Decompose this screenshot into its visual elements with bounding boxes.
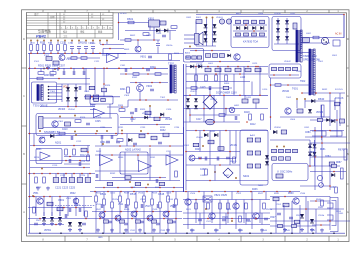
diode VD707 xyxy=(331,173,335,177)
capacitor C604 xyxy=(260,20,265,24)
border tick bottom xyxy=(196,236,198,242)
junction N1 xyxy=(120,211,122,213)
diode VD304 xyxy=(74,97,78,101)
resistor R318 xyxy=(89,86,95,89)
resistor R101 xyxy=(36,45,39,51)
resistor R533 xyxy=(335,187,338,193)
wire C h1 xyxy=(196,45,216,47)
test point TP2 xyxy=(37,40,39,42)
ceramic filter Z102 xyxy=(53,61,59,65)
wire E rail xyxy=(28,67,168,69)
wire R103 xyxy=(50,51,52,54)
junction X 204-130.5 xyxy=(203,130,205,132)
wire E v7 xyxy=(103,68,105,97)
wire I c220 xyxy=(55,174,57,178)
svg-text:R502: R502 xyxy=(70,193,76,195)
capacitor C216 xyxy=(69,159,71,163)
drawing inner border xyxy=(27,13,347,236)
resistor R534 xyxy=(168,220,173,223)
svg-text:N201: N201 xyxy=(36,149,42,151)
svg-text:Z102: Z102 xyxy=(44,55,50,57)
junction G3 xyxy=(237,66,239,68)
diode VD502 xyxy=(58,217,62,221)
wire N col1 xyxy=(103,205,105,233)
junction E143 xyxy=(142,68,144,70)
wire O col9 xyxy=(259,200,261,224)
junction D1 xyxy=(343,14,345,16)
via A4 xyxy=(54,68,56,70)
wire B h1 xyxy=(119,22,153,24)
diode VD531 xyxy=(310,219,314,223)
border tick bottom xyxy=(328,236,330,242)
diode VD606 xyxy=(213,38,217,42)
diode VD430 xyxy=(204,133,208,137)
diode VD640 xyxy=(272,67,277,70)
wire R h166 xyxy=(308,165,340,167)
svg-text:C531: C531 xyxy=(130,230,136,232)
capacitor C431 xyxy=(226,157,230,159)
svg-text:D: D xyxy=(23,38,25,41)
wire T301 pin1 xyxy=(49,86,62,88)
svg-text:R437: R437 xyxy=(224,175,230,177)
transistor V601 xyxy=(234,54,240,60)
resistor R532 xyxy=(321,200,324,206)
junction E131 xyxy=(130,68,132,70)
svg-text:R511: R511 xyxy=(96,193,102,195)
capacitor C312 xyxy=(79,86,81,90)
wire O h3 xyxy=(183,224,270,226)
resistor R613 xyxy=(260,33,265,36)
capacitor C310 xyxy=(85,95,91,99)
svg-text:T601: T601 xyxy=(318,61,324,63)
svg-text:C553b: C553b xyxy=(318,215,325,217)
wire L h4 xyxy=(310,171,346,173)
junction O3 xyxy=(251,199,253,201)
wire N v8 xyxy=(159,192,161,203)
resistor R701 xyxy=(318,118,323,121)
via F1 xyxy=(149,105,151,107)
wire N h2 xyxy=(92,218,182,220)
via H1 xyxy=(296,98,298,100)
wire R v5 xyxy=(314,140,316,166)
svg-text:X901: X901 xyxy=(339,213,345,215)
svg-text:FOCUS: FOCUS xyxy=(335,97,344,100)
wire R102 xyxy=(43,51,45,54)
via K1 xyxy=(202,145,204,147)
wire M h1 xyxy=(28,196,92,198)
svg-text:PB41: PB41 xyxy=(36,34,47,39)
wire R105 xyxy=(64,51,66,54)
wire I c224 xyxy=(87,174,89,178)
wire R h186 xyxy=(300,185,330,187)
svg-text:VD1: VD1 xyxy=(63,86,68,89)
transistor V511 xyxy=(115,215,121,221)
wire G vz0 xyxy=(203,95,205,122)
junction E59 xyxy=(58,68,60,70)
lamp H401 xyxy=(229,107,235,113)
junction gnd 103 xyxy=(102,232,104,234)
capacitor C413 xyxy=(235,116,237,120)
wire J h2 xyxy=(95,145,183,147)
border tick top xyxy=(328,10,330,13)
svg-text:C601: C601 xyxy=(186,17,192,19)
ground M4 xyxy=(68,228,72,232)
ground N1 xyxy=(110,229,114,233)
svg-text:C234: C234 xyxy=(174,127,180,129)
svg-text:AC IN: AC IN xyxy=(335,33,342,36)
transistor V514 xyxy=(163,211,169,217)
resistor R400 xyxy=(195,75,198,81)
svg-text:C546: C546 xyxy=(310,230,316,232)
junction J r5 xyxy=(173,187,175,189)
wire drop TP7 xyxy=(71,42,73,45)
junction M6 xyxy=(33,196,35,198)
svg-text:VD601: VD601 xyxy=(216,17,223,19)
fuse F602 xyxy=(226,19,231,24)
border tick left xyxy=(22,125,27,127)
wire F h4 xyxy=(90,109,96,111)
capacitor C232 xyxy=(116,141,120,143)
junction K5 xyxy=(225,130,227,132)
svg-text:C519: C519 xyxy=(152,209,158,211)
capacitor Cb2 xyxy=(141,204,143,208)
junction gnd 313 xyxy=(312,232,314,234)
junction A rail 100 xyxy=(99,53,101,55)
via C8 xyxy=(189,46,191,48)
svg-text:C311: C311 xyxy=(90,106,96,108)
svg-text:K601: K601 xyxy=(148,17,155,21)
capacitor C220 xyxy=(53,178,59,183)
wire G vx0 xyxy=(195,67,197,96)
svg-text:V303: V303 xyxy=(124,95,130,97)
junction X 160-82.5 xyxy=(159,82,161,84)
wire N v2 xyxy=(111,192,113,203)
svg-text:R231: R231 xyxy=(118,127,124,129)
junction E83 xyxy=(82,68,84,70)
CRT socket bracket outer xyxy=(330,198,338,232)
svg-text:VD684: VD684 xyxy=(316,112,324,114)
wire J h3 xyxy=(95,154,183,156)
wire N col7 xyxy=(151,205,153,233)
wire J h5 xyxy=(112,177,166,179)
capacitor C603 xyxy=(252,20,257,24)
wire drop TP5 xyxy=(57,42,59,45)
wire I h1 xyxy=(28,133,95,135)
svg-text:XP601: XP601 xyxy=(120,13,127,15)
pin T301-2 xyxy=(48,89,50,91)
via I2 xyxy=(74,131,76,133)
svg-text:R233: R233 xyxy=(160,127,166,129)
svg-text:R512b: R512b xyxy=(112,199,119,201)
wire bottom rail top xyxy=(90,191,300,193)
junction BB186 xyxy=(185,191,187,193)
test point TP3 xyxy=(43,40,45,42)
wire O col7 xyxy=(243,200,245,224)
speaker BL601 cone xyxy=(199,32,203,45)
junction G7 xyxy=(209,95,211,97)
bridge rectifier VD410 xyxy=(203,95,217,109)
wire N v10 xyxy=(175,192,177,200)
svg-text:R530: R530 xyxy=(288,193,294,195)
resistor R300 xyxy=(38,72,44,75)
svg-text:H401: H401 xyxy=(234,105,240,107)
junction J5 xyxy=(147,133,149,135)
border tick bottom xyxy=(64,236,66,242)
via O5 xyxy=(231,220,233,222)
junction X 104-68.3 xyxy=(103,68,105,70)
capacitor C501 xyxy=(69,208,71,212)
wire G v3 xyxy=(255,103,257,109)
standby supply box A301 xyxy=(36,114,118,136)
junction J13 xyxy=(119,145,121,147)
junction E47 xyxy=(46,68,48,70)
junction E9 xyxy=(58,78,60,80)
diode VD503 xyxy=(68,222,72,226)
svg-text:R412: R412 xyxy=(250,124,256,126)
junction L7 xyxy=(329,130,331,132)
wire N col9 xyxy=(167,202,169,233)
junction N2 2 xyxy=(131,218,133,220)
svg-text:R241: R241 xyxy=(150,157,156,159)
resistor R245 xyxy=(107,182,113,185)
wire C100 xyxy=(71,49,73,53)
diode VD421 xyxy=(186,105,190,109)
svg-text:R560: R560 xyxy=(318,207,324,209)
resistor R533 xyxy=(152,220,157,223)
svg-text:C121: C121 xyxy=(94,61,100,63)
capacitor C514 xyxy=(172,221,176,223)
resistor R306 xyxy=(37,77,43,80)
svg-text:N101: N101 xyxy=(104,55,110,57)
capacitor C622 xyxy=(220,54,225,58)
svg-text:C542: C542 xyxy=(214,230,220,232)
svg-text:C533: C533 xyxy=(160,230,166,232)
resistor R435 xyxy=(233,157,236,163)
diode VD632 xyxy=(276,36,280,40)
wire F v3 xyxy=(127,100,129,107)
capacitor C601 xyxy=(236,20,241,24)
svg-text:C411: C411 xyxy=(246,97,252,99)
diode VD643 xyxy=(293,67,298,70)
wire G v4 xyxy=(189,109,191,123)
diode VD701 xyxy=(311,99,315,103)
resistor R105 xyxy=(64,45,67,51)
resistor R630 xyxy=(321,105,324,117)
junction BB238 xyxy=(237,191,239,193)
resistor R519 xyxy=(167,196,170,202)
wire G h5 xyxy=(184,108,269,110)
svg-text:R525b: R525b xyxy=(266,209,273,211)
wire G vy1 xyxy=(233,74,235,95)
junction G2 xyxy=(227,66,229,68)
electrolytic C412 xyxy=(206,119,215,125)
svg-text:A601: A601 xyxy=(186,56,192,59)
resistor R430 xyxy=(208,140,214,144)
junction I rail 74 xyxy=(73,173,75,175)
svg-text:L601: L601 xyxy=(208,63,214,65)
svg-text:R242: R242 xyxy=(110,173,116,175)
junction E71 xyxy=(70,68,72,70)
wire O h1 xyxy=(183,199,270,201)
wire P h3 xyxy=(270,220,350,222)
op-amp N202A xyxy=(100,155,113,166)
wire C h2 xyxy=(233,24,267,26)
diode VD210 xyxy=(50,134,54,138)
svg-text:C: C xyxy=(23,95,25,98)
wire O col2 xyxy=(203,200,205,230)
junction X 186-151.5 xyxy=(185,151,187,153)
wire O v3 xyxy=(251,192,253,200)
junction E10 xyxy=(103,83,105,85)
transistor V604 xyxy=(285,108,291,114)
junction O2 xyxy=(227,212,229,214)
svg-text:C215: C215 xyxy=(52,165,58,167)
diode VD655 xyxy=(265,155,269,159)
wire O v2 xyxy=(231,192,233,200)
junction A1 xyxy=(37,53,39,55)
ground I6 xyxy=(46,187,50,191)
junction X 274-75 xyxy=(273,74,275,76)
wire H v5 xyxy=(270,78,272,130)
wire H h3 xyxy=(280,116,330,118)
junction I6b xyxy=(69,156,71,158)
junction CRT a xyxy=(315,200,317,202)
wire R h137 xyxy=(305,136,347,138)
resistor R650 xyxy=(272,149,277,152)
junction M7 xyxy=(49,196,51,198)
svg-text:C651: C651 xyxy=(304,127,310,129)
svg-text:V501: V501 xyxy=(58,198,65,202)
ground O3 xyxy=(260,229,264,233)
svg-text:V522: V522 xyxy=(236,193,242,195)
wire drop TP3 xyxy=(43,42,45,45)
svg-text:R531: R531 xyxy=(274,193,280,195)
junction gnd 40 xyxy=(39,232,41,234)
resistor R110 xyxy=(71,57,77,60)
capacitor C102 xyxy=(84,47,88,49)
svg-text:X601: X601 xyxy=(332,55,338,57)
wire F h5 xyxy=(107,106,128,108)
diode VD605 xyxy=(213,31,217,35)
svg-text:FOCUS: FOCUS xyxy=(335,89,343,91)
junction X 119-68.3 xyxy=(118,68,120,70)
op-amp N202B xyxy=(139,161,152,172)
test point TP5 xyxy=(57,40,59,42)
wire N h1 xyxy=(92,211,182,213)
junction X 256-66.5 xyxy=(255,66,257,68)
junction BB108 xyxy=(107,191,109,193)
pin T301-1 xyxy=(48,86,50,88)
wire N v4 xyxy=(127,192,129,200)
wire C sp2 xyxy=(184,38,195,40)
border tick right xyxy=(347,125,349,127)
wire K v5 xyxy=(229,131,231,166)
ground N2 xyxy=(124,229,128,233)
resistor R511 xyxy=(103,199,106,205)
diode VD631 xyxy=(276,28,280,32)
capacitor C224 xyxy=(85,178,91,183)
capacitor C433 xyxy=(205,157,207,161)
svg-text:VD320: VD320 xyxy=(165,119,173,121)
ground N3 xyxy=(138,229,142,233)
svg-text:R545: R545 xyxy=(285,230,291,232)
svg-text:R521: R521 xyxy=(186,209,192,211)
junction gnd 166 xyxy=(165,232,167,234)
wire CRT 2 xyxy=(312,224,330,226)
border tick top xyxy=(196,10,198,13)
wire P h2 xyxy=(270,208,344,210)
transistor V523 xyxy=(253,213,259,219)
CRT socket hook 1 xyxy=(327,203,333,208)
resistor R5110 xyxy=(175,199,178,205)
capacitor C602 xyxy=(244,20,249,24)
wire B v4 xyxy=(157,40,159,43)
junction M8 xyxy=(63,207,65,209)
border tick top xyxy=(240,10,242,13)
resistor R523 xyxy=(245,203,248,209)
wire E c0 xyxy=(63,68,65,71)
diode VD302 xyxy=(66,97,70,101)
inductor L400 xyxy=(205,68,211,72)
diode VD501 xyxy=(50,217,54,221)
junction gnd 145 xyxy=(144,232,146,234)
junction X 146-100 xyxy=(145,99,147,101)
component A404 xyxy=(247,164,253,168)
resistor R104 xyxy=(57,45,60,51)
svg-text:R533: R533 xyxy=(316,199,322,201)
inductor L402 xyxy=(225,68,231,72)
junction gnd 334 xyxy=(333,232,335,234)
resistor R220 xyxy=(35,177,38,183)
wire C h4 xyxy=(233,36,267,38)
svg-text:R604: R604 xyxy=(174,53,180,55)
wire O col6 xyxy=(235,200,237,230)
junction H5 xyxy=(270,84,272,86)
wire M h2 xyxy=(28,207,92,209)
svg-text:VD642: VD642 xyxy=(284,61,291,63)
wire M h4 xyxy=(30,224,65,226)
capacitor C701 xyxy=(335,102,340,106)
transistor V301 xyxy=(52,121,58,127)
lamp H601 xyxy=(317,175,322,180)
resistor R217 xyxy=(87,155,90,161)
resistor R530 xyxy=(104,220,109,223)
resistor R202 xyxy=(171,26,177,29)
wire I h4 xyxy=(30,167,90,169)
wire R h120 xyxy=(310,119,337,121)
wire P h1 xyxy=(270,196,330,198)
wire drop TP12 xyxy=(106,42,108,45)
svg-text:VD421: VD421 xyxy=(190,91,197,93)
switching transformer T601 xyxy=(296,30,302,62)
resistor R315 xyxy=(65,122,71,126)
svg-text:R18: R18 xyxy=(80,41,85,45)
wire D v1 xyxy=(277,18,279,44)
svg-text:VD640: VD640 xyxy=(282,91,290,93)
wire T301 pin4 xyxy=(49,95,62,97)
capacitor C217 xyxy=(79,162,81,166)
resistor R248 xyxy=(117,139,123,142)
wire G h4 xyxy=(184,94,269,96)
wire J fb1 xyxy=(124,152,126,181)
diode VD202 xyxy=(164,29,168,33)
speaker BL601 body xyxy=(195,34,200,45)
capacitor Cb3 xyxy=(157,204,159,208)
junction N4 xyxy=(168,211,170,213)
diode VD645 xyxy=(308,109,312,113)
wire I h2 xyxy=(30,145,90,147)
wire K h1 xyxy=(186,130,268,132)
